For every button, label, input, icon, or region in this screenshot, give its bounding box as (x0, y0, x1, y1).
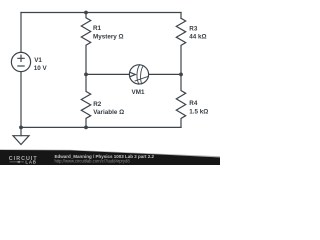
wire left rail lower (20, 72, 22, 128)
svg-text:R1: R1 (93, 25, 102, 32)
node junction middle (R1/R2/VM1) (84, 73, 88, 77)
wire middle right (voltmeter to right rail) (149, 73, 181, 75)
wire middle left (node to voltmeter) (86, 73, 129, 75)
svg-text:Mystery Ω: Mystery Ω (93, 33, 124, 40)
VM1 gauge arc right (141, 66, 144, 84)
svg-text:1.5 kΩ: 1.5 kΩ (189, 109, 208, 116)
wire right rail top (180, 13, 182, 19)
svg-text:LAB: LAB (25, 160, 36, 165)
ground stub wire (20, 127, 22, 135)
ground (13, 136, 29, 145)
svg-text:44 kΩ: 44 kΩ (189, 34, 206, 41)
VM1 arrow glyph (130, 72, 135, 76)
footer bar soft edge (0, 149, 220, 158)
VM1 needle (135, 76, 148, 81)
resistor R4 (176, 74, 185, 127)
resistor R2 (81, 74, 90, 127)
svg-text:http://www.circuitlab.com/c/7t: http://www.circuitlab.com/c/7tadd4rpryd8 (55, 158, 131, 163)
wire bottom rail (21, 126, 181, 128)
node junction bottom (R2/bottom rail) (84, 126, 88, 130)
svg-text:V1: V1 (34, 57, 42, 64)
wire left rail upper (20, 13, 22, 53)
node junction top (R1/top rail) (84, 11, 88, 15)
footer bar (0, 150, 220, 165)
svg-text:Variable Ω: Variable Ω (93, 109, 124, 116)
resistor R3 (176, 18, 185, 74)
voltage source V1 (11, 52, 30, 71)
svg-text:R2: R2 (93, 101, 102, 108)
svg-text:R4: R4 (189, 100, 198, 107)
voltmeter VM1 (129, 65, 148, 84)
node junction right (R3/R4/VM1) (179, 73, 183, 77)
svg-text:10 V: 10 V (34, 65, 48, 72)
VM1 gauge arc left (137, 65, 140, 84)
resistor R1 (81, 13, 90, 75)
node junction bottom-left (ground) (19, 126, 23, 130)
svg-text:VM1: VM1 (132, 89, 145, 96)
V1 minus sign (18, 65, 24, 67)
V1 plus sign (18, 55, 24, 61)
wire top rail (21, 12, 181, 14)
CircuitLab logo wire glyph (10, 161, 25, 163)
svg-text:R3: R3 (189, 25, 198, 32)
